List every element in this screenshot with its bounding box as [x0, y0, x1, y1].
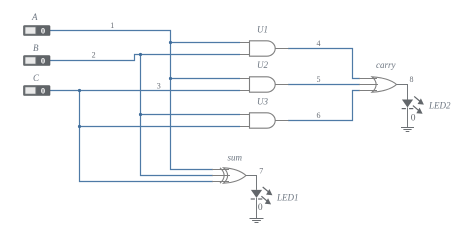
svg-text:carry: carry — [376, 60, 396, 70]
svg-text:B: B — [33, 43, 39, 53]
svg-text:1: 1 — [110, 21, 114, 30]
svg-text:6: 6 — [317, 111, 321, 120]
svg-text:U1: U1 — [257, 25, 268, 35]
svg-text:0: 0 — [41, 26, 45, 36]
svg-text:0: 0 — [41, 56, 45, 66]
svg-text:C: C — [33, 73, 40, 83]
svg-text:U2: U2 — [257, 60, 268, 70]
svg-text:LED1: LED1 — [276, 193, 299, 203]
svg-text:U3: U3 — [257, 97, 268, 107]
svg-text:0: 0 — [411, 113, 416, 123]
svg-text:4: 4 — [317, 39, 321, 48]
svg-text:7: 7 — [259, 166, 263, 175]
svg-text:5: 5 — [317, 75, 321, 84]
svg-text:0: 0 — [41, 86, 45, 96]
svg-text:2: 2 — [92, 51, 96, 60]
svg-text:sum: sum — [228, 153, 243, 163]
svg-text:3: 3 — [157, 82, 161, 91]
svg-text:8: 8 — [410, 75, 414, 84]
svg-text:A: A — [31, 12, 38, 22]
svg-text:0: 0 — [258, 203, 263, 213]
svg-text:LED2: LED2 — [428, 101, 451, 111]
